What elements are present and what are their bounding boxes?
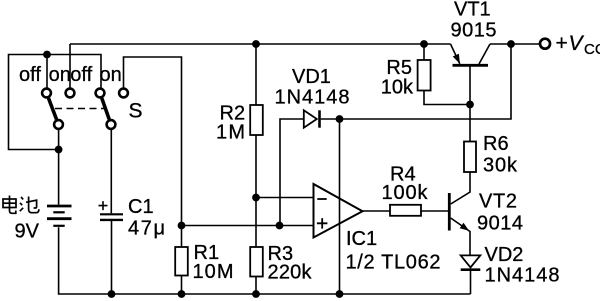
svg-text:VD1: VD1 — [292, 66, 331, 88]
svg-text:1M: 1M — [216, 122, 245, 144]
svg-text:on: on — [100, 64, 122, 86]
svg-text:VT2: VT2 — [479, 191, 517, 213]
svg-text:C1: C1 — [128, 196, 154, 218]
svg-text:VD2: VD2 — [485, 244, 524, 266]
svg-text:R6: R6 — [483, 133, 509, 155]
svg-text:9V: 9V — [15, 221, 40, 243]
svg-text:10M: 10M — [193, 261, 234, 283]
svg-text:off: off — [19, 64, 41, 86]
svg-text:IC1: IC1 — [346, 228, 377, 250]
svg-text:off: off — [70, 64, 92, 86]
svg-text:S: S — [129, 99, 143, 122]
svg-text:1N4148: 1N4148 — [275, 87, 350, 109]
svg-text:30k: 30k — [483, 155, 518, 177]
svg-text:1N4148: 1N4148 — [485, 265, 560, 287]
svg-text:V: V — [569, 32, 585, 55]
svg-text:on: on — [49, 64, 71, 86]
svg-text:100k: 100k — [382, 182, 429, 204]
svg-text:9015: 9015 — [451, 20, 497, 42]
svg-text:VT1: VT1 — [454, 0, 491, 21]
svg-text:10k: 10k — [381, 77, 414, 99]
svg-text:9014: 9014 — [477, 213, 523, 235]
svg-text:+: + — [556, 32, 568, 55]
svg-text:1/2 TL062: 1/2 TL062 — [346, 252, 441, 274]
svg-text:220k: 220k — [268, 262, 313, 284]
svg-text:CC: CC — [584, 41, 600, 58]
svg-text:47μ: 47μ — [128, 218, 165, 240]
